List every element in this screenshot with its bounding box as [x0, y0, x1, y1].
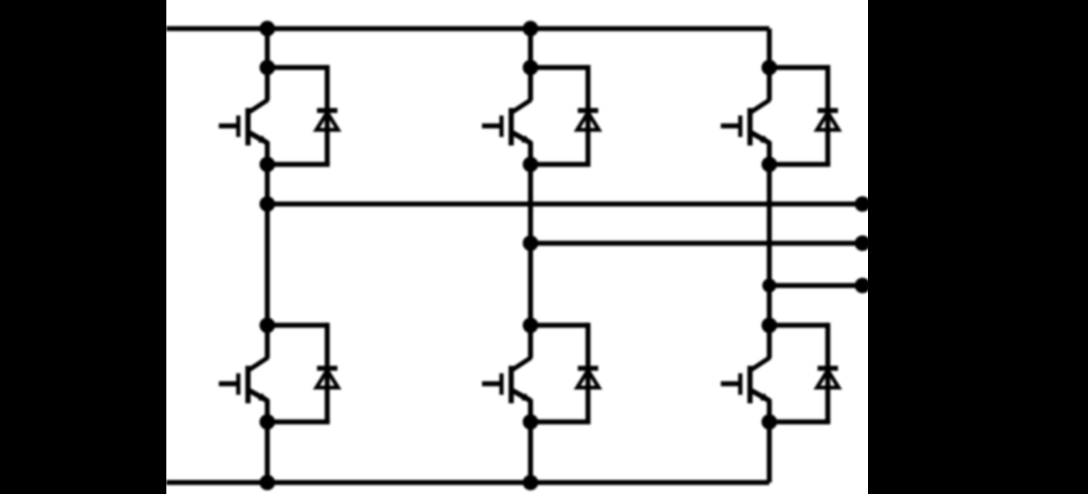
transistor Q6 emitter arrow	[761, 394, 770, 401]
wire: Q5 emitter branch	[767, 142, 772, 165]
diode D2 cathode bar	[317, 366, 337, 371]
wire: Q3 emitter branch	[528, 142, 533, 165]
transistor Q6 gate bar	[738, 373, 742, 395]
wire: Q6 collector branch	[767, 325, 772, 358]
wire: Q4 emitter branch	[528, 399, 533, 422]
node: Q2 emitter junction	[260, 415, 275, 430]
node: Q5 emitter junction	[762, 157, 777, 172]
transistor Q2 gate lead	[219, 381, 238, 386]
transistor Q4 emitter diagonal	[513, 391, 531, 401]
wire: Q2 collector branch	[265, 325, 270, 358]
node: Q6 collector junction	[762, 318, 777, 333]
transistor Q2 gate bar	[236, 373, 240, 395]
node: Q5 collector junction	[762, 60, 777, 75]
transistor Q6 gate lead	[721, 381, 740, 386]
diode D6 cathode bar	[818, 366, 838, 371]
node: phase C tap junction	[763, 279, 776, 292]
wire: Q3 collector branch	[528, 68, 533, 101]
wire: Q4 collector branch	[528, 325, 533, 358]
wire: leg 3 to DC+ bus	[767, 29, 772, 68]
transistor Q6 emitter diagonal	[752, 391, 770, 401]
transistor Q4 gate bar	[499, 373, 503, 395]
node: phase B terminal	[855, 236, 870, 251]
wire: leg 3 to DC- bus	[767, 422, 772, 483]
wire: Q6 emitter branch	[767, 399, 772, 422]
left black margin bar	[0, 0, 166, 494]
transistor Q2 emitter arrow	[259, 394, 268, 401]
node: phase A tap junction	[260, 197, 275, 212]
wire: D6 loop right (through diode)	[825, 323, 830, 422]
transistor Q2 main bar	[245, 366, 250, 404]
wire: leg 3 midpoint link	[767, 164, 772, 325]
node: Q1 emitter junction	[260, 157, 275, 172]
wire: D6 loop top	[769, 323, 828, 328]
node: Q2 collector junction	[260, 318, 275, 333]
node: Q3 collector junction	[523, 60, 538, 75]
wire: phase C output line	[769, 283, 866, 288]
node: leg 2 DC+ junction	[523, 21, 538, 36]
wire: D4 loop right (through diode)	[586, 323, 591, 422]
node: Q6 emitter junction	[762, 415, 777, 430]
transistor Q1 gate lead	[219, 123, 238, 128]
diode D5 triangle	[817, 113, 839, 130]
transistor Q3 (IGBT) collector diagonal	[513, 100, 531, 112]
wire: D5 loop top	[769, 65, 828, 70]
node: phase C terminal	[855, 278, 870, 293]
transistor Q3 gate lead	[482, 123, 501, 128]
transistor Q5 (IGBT) collector diagonal	[752, 100, 770, 112]
node: Q3 emitter junction	[523, 157, 538, 172]
transistor Q1 main bar	[245, 108, 250, 146]
wire: leg 1 to DC+ bus	[265, 29, 270, 68]
wire: DC+ top bus	[166, 26, 769, 31]
node: Q4 emitter junction	[523, 415, 538, 430]
transistor Q6 main bar	[747, 366, 752, 404]
transistor Q6 (IGBT) collector diagonal	[752, 358, 770, 370]
wire: D5 loop bottom	[769, 162, 830, 167]
wire: D2 loop bottom	[267, 419, 329, 424]
wire: D3 loop top	[531, 65, 589, 70]
transistor Q3 emitter diagonal	[513, 133, 531, 143]
transistor Q1 (IGBT) collector diagonal	[250, 100, 268, 112]
wire: DC- bottom bus	[166, 480, 769, 485]
diode D5 cathode bar	[818, 108, 838, 113]
wire: leg 2 midpoint link	[528, 164, 533, 325]
wire: phase B output line	[531, 241, 867, 246]
transistor Q2 emitter diagonal	[250, 391, 268, 401]
transistor Q2 (IGBT) collector diagonal	[250, 358, 268, 370]
transistor Q4 emitter arrow	[522, 394, 531, 401]
diode D3 cathode bar	[578, 108, 598, 113]
node: Q1 collector junction	[260, 60, 275, 75]
wire: D1 loop right (through diode)	[325, 65, 330, 164]
wire: D1 loop top	[267, 65, 327, 70]
transistor Q3 main bar	[509, 108, 514, 146]
transistor Q3 emitter arrow	[522, 136, 531, 143]
wire: D3 loop right (through diode)	[586, 65, 591, 164]
wire: Q2 emitter branch	[265, 399, 270, 422]
wire: D2 loop top	[267, 323, 327, 328]
wire: D5 loop right (through diode)	[825, 65, 830, 164]
node: leg 1 DC- junction	[260, 475, 275, 490]
wire: Q1 collector branch	[265, 68, 270, 101]
transistor Q5 gate lead	[721, 123, 740, 128]
wire: D3 loop bottom	[531, 162, 591, 167]
transistor Q4 (IGBT) collector diagonal	[513, 358, 531, 370]
transistor Q3 gate bar	[499, 116, 503, 138]
diode D4 triangle	[577, 370, 599, 387]
wire: leg 1 to DC- bus	[265, 422, 270, 483]
node: leg 2 DC- junction	[523, 475, 538, 490]
node: phase B tap junction	[523, 236, 538, 251]
wire: Q1 emitter branch	[265, 142, 270, 165]
wire: D6 loop bottom	[769, 419, 830, 424]
transistor Q5 emitter diagonal	[752, 133, 770, 143]
transistor Q4 main bar	[509, 366, 514, 404]
diode D4 cathode bar	[578, 366, 598, 371]
node: phase A terminal	[855, 197, 870, 212]
wire: D4 loop top	[531, 323, 589, 328]
transistor Q4 gate lead	[482, 381, 501, 386]
wire: leg 2 to DC+ bus	[528, 29, 533, 68]
diode D1 cathode bar	[317, 108, 337, 113]
transistor Q5 emitter arrow	[761, 136, 770, 143]
transistor Q1 emitter diagonal	[250, 133, 268, 143]
diode D6 triangle	[817, 370, 839, 387]
wire: D1 loop bottom	[267, 162, 329, 167]
wire: Q5 collector branch	[767, 68, 772, 101]
diode D2 triangle	[316, 370, 338, 387]
transistor Q1 gate bar	[236, 116, 240, 138]
node: Q4 collector junction	[523, 318, 538, 333]
wire: phase A output line	[267, 202, 866, 207]
wire: leg 1 midpoint link	[265, 164, 270, 325]
node: leg 1 DC+ junction	[260, 21, 275, 36]
diode D3 triangle	[577, 113, 599, 130]
wire: D4 loop bottom	[531, 419, 591, 424]
right black margin bar	[868, 0, 1088, 494]
transistor Q5 gate bar	[738, 116, 742, 138]
wire: leg 2 to DC- bus	[528, 422, 533, 483]
diode D1 triangle	[316, 113, 338, 130]
transistor Q1 emitter arrow	[259, 136, 268, 143]
wire: D2 loop right (through diode)	[325, 323, 330, 422]
transistor Q5 main bar	[747, 108, 752, 146]
